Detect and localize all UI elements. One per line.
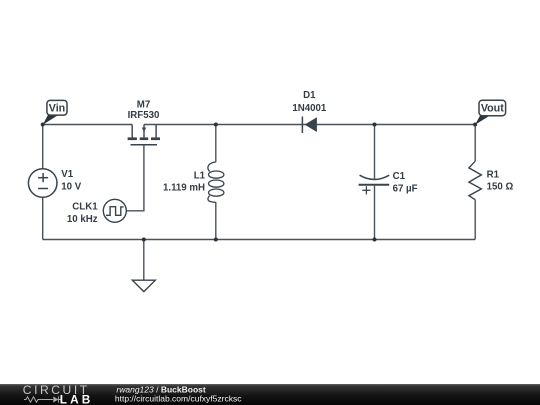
wire ground stem (143, 240, 145, 281)
wire M7 gate to CLK1 (126, 145, 144, 210)
wire C1 top lead (374, 125, 376, 180)
svg-text:LAB: LAB (60, 392, 94, 405)
label D1 (303, 90, 316, 101)
node Vout junction dot (473, 123, 477, 127)
inductor L1 (208, 162, 224, 202)
capacitor C1 (polarized) (359, 175, 390, 194)
voltage source V1 (28, 169, 57, 198)
junction dot ground (142, 238, 146, 242)
svg-text:R1: R1 (487, 170, 500, 181)
svg-text:150 Ω: 150 Ω (487, 182, 514, 193)
node Vin junction dot (41, 123, 45, 127)
label R1 (487, 170, 500, 181)
label 150 Ohm (487, 182, 514, 193)
junction dot C1 top (373, 123, 377, 127)
diode D1 1N4001 (302, 117, 317, 134)
wire right rail lower (R1 bottom to bottom rail) (474, 200, 476, 240)
label 67 uF (393, 183, 418, 194)
wire top rail right (M7 source to Vout node) (144, 124, 475, 126)
svg-text:1N4001: 1N4001 (292, 103, 327, 114)
junction dot L1 top (214, 123, 218, 127)
label 1N4001 (292, 103, 327, 114)
wire left rail lower (V1 bottom to bottom rail) (42, 197, 44, 239)
svg-text:D1: D1 (303, 90, 316, 101)
junction dot C1 bottom (373, 238, 377, 242)
label 10 kHz (67, 214, 98, 225)
svg-text:1.119 mH: 1.119 mH (163, 182, 205, 193)
label M7 (137, 99, 150, 110)
wire L1 bottom lead (215, 202, 217, 240)
ground (132, 280, 155, 291)
label 10 V (61, 181, 81, 192)
label V1 (61, 169, 73, 180)
svg-text:Vout: Vout (481, 103, 504, 115)
wire right rail upper (Vout node to R1 top) (474, 125, 476, 162)
node Vout flag (475, 100, 506, 125)
label C1 (393, 171, 406, 182)
wire left rail upper (Vin node to V1 top) (42, 125, 44, 169)
svg-text:http://circuitlab.com/cufxyf5z: http://circuitlab.com/cufxyf5zrcksc (115, 394, 242, 404)
svg-text:V1: V1 (61, 169, 73, 180)
footer logo squiggle (resistor + diode) (24, 396, 62, 402)
node Vin flag (43, 100, 67, 124)
svg-text:M7: M7 (137, 99, 150, 110)
footer logo CIRCUIT (23, 383, 90, 397)
svg-text:10 V: 10 V (61, 181, 81, 192)
wire L1 top lead (215, 125, 217, 163)
clock source CLK1 (103, 199, 126, 222)
svg-text:67 µF: 67 µF (393, 183, 418, 194)
svg-text:C1: C1 (393, 171, 406, 182)
svg-text:Vin: Vin (49, 102, 65, 114)
svg-text:CLK1: CLK1 (72, 202, 98, 213)
label CLK1 (72, 202, 98, 213)
junction dot L1 bottom (214, 238, 218, 242)
label IRF530 (128, 110, 160, 121)
footer title rwang123 / BuckBoost (116, 384, 205, 394)
wire bottom rail (43, 239, 476, 241)
transistor Q M7 IRF530 (128, 125, 160, 145)
label L1 (194, 170, 206, 181)
footer url (115, 394, 242, 404)
wire top rail left (Vin node to M7 drain) (43, 124, 133, 126)
footer bar (0, 384, 540, 405)
svg-text:10 kHz: 10 kHz (67, 214, 98, 225)
footer logo LAB (60, 392, 94, 405)
resistor R1 (469, 161, 482, 200)
wire C1 bottom lead (374, 186, 376, 240)
label 1.119 mH (163, 182, 205, 193)
svg-text:L1: L1 (194, 170, 206, 181)
svg-text:IRF530: IRF530 (128, 110, 160, 121)
